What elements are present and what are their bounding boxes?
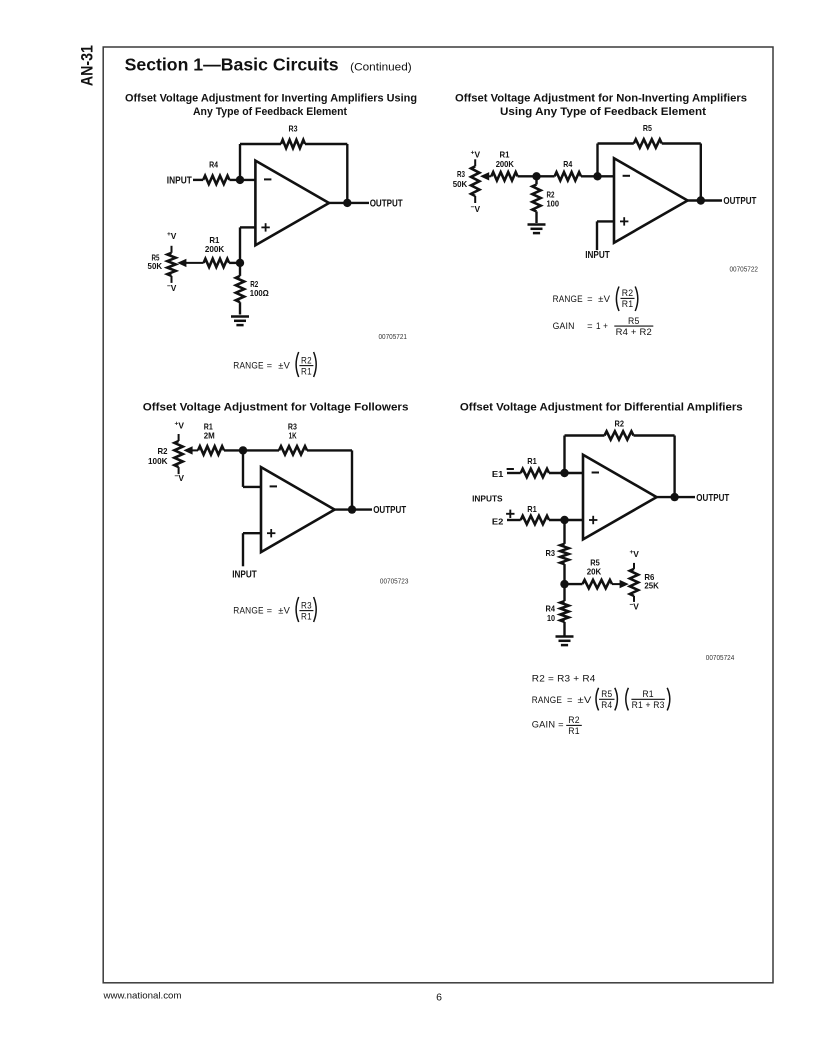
svg-text:±V: ±V [598,294,611,304]
svg-text:RANGE: RANGE [233,360,263,370]
svg-text:±V: ±V [278,605,290,615]
svg-text:R2: R2 [158,446,168,456]
svg-text:6: 6 [436,992,442,1004]
svg-text:200K: 200K [496,159,514,169]
svg-text:AN-31: AN-31 [78,45,97,86]
svg-text:00705723: 00705723 [380,578,409,585]
svg-text:V: V [171,231,177,241]
svg-text:50K: 50K [148,261,163,271]
svg-text:00705721: 00705721 [379,334,408,341]
svg-text:R1: R1 [568,726,580,736]
svg-text:=: = [267,605,273,615]
svg-text:25K: 25K [644,581,659,591]
svg-text:200K: 200K [205,244,224,254]
svg-text:±V: ±V [578,695,593,705]
svg-text:V: V [178,473,184,483]
svg-text:=: = [587,294,593,304]
svg-text:2M: 2M [204,430,215,440]
svg-text:20K: 20K [587,567,602,577]
svg-text:V: V [475,204,481,214]
svg-text:R2: R2 [622,288,634,298]
svg-text:100: 100 [547,199,560,209]
svg-text:±V: ±V [278,360,290,370]
svg-text:10: 10 [547,613,555,623]
svg-text:00705724: 00705724 [706,655,735,662]
svg-text:R5: R5 [601,689,612,699]
svg-text:R1: R1 [301,366,312,376]
svg-text:R4: R4 [209,159,218,169]
svg-text:RANGE: RANGE [233,605,263,615]
svg-text:50K: 50K [453,179,468,189]
svg-text:R1: R1 [527,456,537,466]
svg-text:INPUT: INPUT [167,175,192,186]
svg-text:GAIN: GAIN [553,321,575,331]
svg-text:Section 1—Basic Circuits: Section 1—Basic Circuits [125,54,339,74]
svg-text:INPUTS: INPUTS [472,493,503,503]
svg-text:=: = [558,719,564,729]
svg-text:E2: E2 [492,516,504,526]
svg-text:Offset Voltage Adjustment for: Offset Voltage Adjustment for Differenti… [460,402,743,414]
svg-text:R1: R1 [301,611,312,621]
svg-text:100Ω: 100Ω [250,288,269,298]
svg-text:=: = [587,321,593,331]
svg-text:OUTPUT: OUTPUT [696,493,729,504]
svg-text:E1: E1 [492,469,504,479]
svg-text:R1: R1 [642,689,654,699]
svg-text:Offset Voltage Adjustment for: Offset Voltage Adjustment for Inverting … [125,93,417,105]
svg-text:RANGE: RANGE [532,695,562,705]
svg-text:V: V [178,421,184,431]
svg-text:R3: R3 [301,600,312,610]
svg-text:R3: R3 [546,548,556,558]
svg-text:R2 = R3 + R4: R2 = R3 + R4 [532,674,596,684]
svg-text:V: V [633,549,639,559]
svg-text:100K: 100K [148,456,168,466]
svg-text:Offset Voltage Adjustment for: Offset Voltage Adjustment for Voltage Fo… [143,402,409,414]
svg-text:1K: 1K [289,431,297,441]
svg-text:R2: R2 [568,715,580,725]
svg-text:OUTPUT: OUTPUT [723,196,756,207]
svg-text:R4: R4 [601,700,612,710]
svg-text:Using Any Type of Feedback Ele: Using Any Type of Feedback Element [500,106,706,118]
svg-text:OUTPUT: OUTPUT [373,505,406,516]
svg-text:Any Type of Feedback Element: Any Type of Feedback Element [193,106,347,118]
svg-text:V: V [633,602,639,612]
svg-text:www.national.com: www.national.com [102,991,181,1001]
svg-text:Offset Voltage Adjustment for: Offset Voltage Adjustment for Non-Invert… [455,93,747,105]
svg-text:R4: R4 [563,159,572,169]
svg-text:00705722: 00705722 [730,266,759,273]
svg-text:R1: R1 [622,299,634,309]
svg-text:R3: R3 [457,169,465,179]
svg-text:R2: R2 [301,355,312,365]
svg-text:R1: R1 [500,150,510,160]
svg-text:RANGE: RANGE [553,294,583,304]
svg-text:GAIN: GAIN [532,719,555,729]
svg-text:R2: R2 [615,418,625,428]
svg-text:R4 + R2: R4 + R2 [616,327,652,337]
svg-text:OUTPUT: OUTPUT [370,198,403,209]
svg-text:=: = [267,360,273,370]
svg-text:R1 + R3: R1 + R3 [632,700,665,710]
svg-text:(Continued): (Continued) [350,62,412,74]
svg-text:R5: R5 [643,123,652,133]
svg-text:V: V [475,150,481,160]
svg-text:=: = [567,695,573,705]
svg-text:1 +: 1 + [596,321,608,331]
svg-text:V: V [171,283,177,293]
svg-text:R1: R1 [527,504,537,514]
svg-text:INPUT: INPUT [232,569,257,580]
svg-text:R5: R5 [628,316,640,326]
svg-text:INPUT: INPUT [585,250,610,261]
svg-text:R3: R3 [289,124,298,134]
